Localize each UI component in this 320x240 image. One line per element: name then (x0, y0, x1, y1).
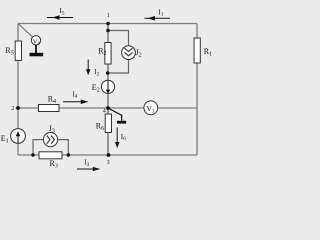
wire right lower (196, 63, 198, 155)
junction dot J3 right (67, 153, 70, 156)
node 4 (106, 106, 110, 110)
resistor R5 (15, 41, 21, 61)
resistor R3 (39, 152, 62, 159)
current arrow I1 (145, 17, 171, 19)
junction dot below node 1 (106, 29, 110, 33)
junction dot R2/J2 bottom (106, 71, 110, 75)
wire center vertical segments (107, 24, 109, 156)
current arrow I4 (63, 101, 88, 103)
current source J2 (122, 46, 136, 60)
current arrow I6 (116, 128, 118, 148)
wire left (17, 24, 19, 42)
ground under V4 (35, 45, 37, 53)
wire left bottom (17, 143, 19, 155)
emf source E2 (101, 80, 114, 93)
wire middle horizontal right of V1 (158, 107, 197, 109)
emf source E1 (11, 129, 26, 144)
wire J3 branch (33, 140, 68, 155)
wire J2 branch top (108, 31, 129, 46)
resistor R2 (105, 43, 111, 65)
wire left lower (17, 61, 19, 129)
junction dot J3 left (31, 153, 34, 156)
current arrow I5 (47, 17, 73, 19)
wire middle horizontal (18, 107, 144, 109)
ground at node 4 (108, 108, 122, 121)
wire bottom (18, 154, 197, 156)
svg-text:2: 2 (11, 106, 14, 112)
voltmeter V4 (31, 36, 40, 45)
current arrow I3 (77, 168, 100, 170)
node 1 (106, 22, 110, 26)
current source J3 (43, 133, 57, 147)
svg-text:4: 4 (103, 109, 106, 115)
node 3 (107, 153, 111, 157)
node 2 (16, 106, 20, 110)
wire top: node1 across (18, 23, 197, 25)
resistor R1 (194, 38, 200, 63)
resistor R4 (39, 105, 60, 112)
wire J2 branch bottom (108, 59, 129, 73)
svg-text:1: 1 (107, 13, 110, 19)
resistor R6 (105, 114, 111, 133)
wire right upper (196, 24, 198, 39)
voltmeter V1 (144, 101, 158, 115)
wire diagonal to V4 (18, 24, 33, 38)
svg-text:3: 3 (107, 160, 110, 166)
current arrow I2 (87, 60, 89, 75)
